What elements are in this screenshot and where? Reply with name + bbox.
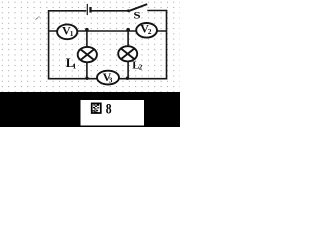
svg-text:1: 1 [73,62,77,70]
svg-text:1: 1 [70,29,74,38]
svg-text:S: S [133,11,140,21]
svg-text:8: 8 [106,100,112,117]
svg-text:2: 2 [139,63,143,71]
svg-text:3: 3 [109,76,113,85]
svg-text:2: 2 [148,27,152,36]
